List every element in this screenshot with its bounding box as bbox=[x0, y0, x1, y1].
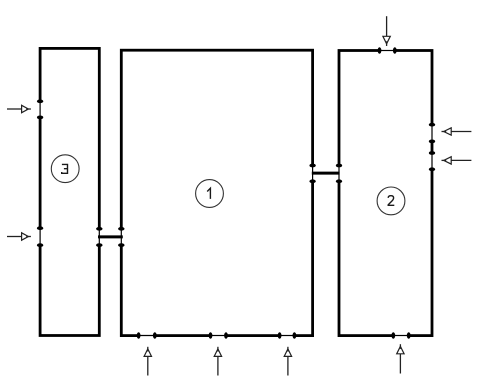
port on right edge of box 3 bbox=[96, 227, 102, 247]
port on right edge of box 2 (lower) bbox=[429, 151, 435, 171]
port on left edge of box 3 (upper) bbox=[37, 99, 43, 119]
port on left edge of box 1 bbox=[118, 227, 124, 247]
arrow into box 2 bottom port bbox=[397, 344, 404, 373]
node label 1 bbox=[196, 180, 224, 208]
port on top edge of box 2 bbox=[378, 47, 397, 53]
port on left edge of box 3 (lower) bbox=[37, 226, 43, 247]
arrow into box 2 lower right port bbox=[442, 157, 472, 164]
zone box 2 bbox=[339, 51, 432, 336]
arrow into box 2 upper right port bbox=[442, 128, 472, 135]
arrow into box 1 bottom middle port bbox=[214, 347, 221, 376]
node label 3 bbox=[51, 155, 79, 183]
port on bottom edge of box 1 (middle) bbox=[209, 332, 228, 338]
arrow into box 3 lower left port bbox=[7, 233, 31, 240]
node label 2 bbox=[377, 187, 405, 215]
port on left edge of box 2 bbox=[336, 164, 342, 184]
port on right edge of box 2 (upper) bbox=[429, 123, 435, 144]
port on bottom edge of box 1 (right) bbox=[278, 332, 297, 338]
wire: coupling between box 1 and box 2 bbox=[312, 172, 340, 175]
zone box 1 bbox=[121, 50, 312, 335]
port on bottom edge of box 2 bbox=[391, 332, 410, 338]
port on bottom edge of box 1 (left) bbox=[137, 332, 157, 338]
arrow into box 2 top port bbox=[383, 16, 390, 46]
arrow into box 1 bottom left port bbox=[144, 347, 151, 376]
arrow into box 3 upper left port bbox=[7, 105, 31, 112]
arrow into box 1 bottom right port bbox=[284, 347, 291, 376]
zone box 3 bbox=[40, 48, 99, 335]
port on right edge of box 1 bbox=[309, 164, 315, 184]
wire: coupling between box 3 and box 1 bbox=[98, 235, 123, 238]
